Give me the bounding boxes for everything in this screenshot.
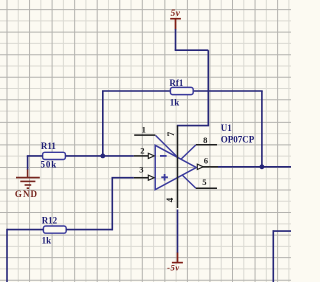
svg-text:2: 2 [140, 145, 144, 155]
wire: pin 4 down to -5V [177, 210, 179, 254]
pin 1 offset-null diagonal [156, 136, 178, 158]
svg-text:R12: R12 [42, 215, 58, 225]
svg-text:GND: GND [15, 189, 38, 199]
pin 5 [196, 187, 217, 189]
svg-text:-5v: -5v [167, 263, 180, 273]
svg-text:U1: U1 [221, 123, 232, 133]
pin number 1 [142, 125, 146, 135]
label GND [15, 189, 38, 199]
label R11 [41, 141, 57, 151]
power -5V symbol [172, 253, 183, 263]
pin 2 (inverting input) [134, 153, 154, 158]
svg-text:5v: 5v [171, 8, 181, 18]
svg-text:7: 7 [167, 132, 177, 137]
label R12 [42, 215, 58, 225]
power +5V symbol [170, 19, 181, 30]
resistor R11 [43, 152, 66, 159]
value 1k (R12) [42, 235, 52, 245]
junction: inverting input node [100, 154, 105, 159]
svg-text:1k: 1k [42, 235, 52, 245]
pin number 7 (rotated) [167, 132, 177, 137]
op-amp non-inverting input plus sign [161, 174, 168, 181]
resistor Rf1 [170, 87, 193, 94]
part number OP07CP [221, 134, 255, 144]
pin number 5 [202, 177, 206, 187]
resistor R12 [43, 226, 66, 233]
ground symbol [16, 170, 40, 189]
pin 1 [134, 134, 155, 136]
svg-text:4: 4 [166, 197, 176, 202]
label Rf1 [169, 78, 183, 88]
svg-text:1k: 1k [170, 97, 180, 107]
pin 5 diagonal [182, 175, 196, 188]
pin number 2 [140, 145, 144, 155]
wire: feedback right vertical down to output net [261, 91, 263, 167]
svg-text:50k: 50k [41, 159, 58, 169]
svg-text:6: 6 [204, 156, 209, 166]
pin 6 (output) [197, 164, 218, 169]
value 1k (Rf1) [170, 97, 180, 107]
pin number 6 [204, 156, 209, 166]
junction: output/feedback node [260, 164, 265, 169]
svg-text:5: 5 [202, 177, 206, 187]
svg-text:Rf1: Rf1 [169, 78, 183, 88]
wire: R12 right up to non-inverting input [66, 178, 134, 231]
svg-text:1: 1 [142, 125, 146, 135]
svg-text:3: 3 [139, 165, 143, 175]
label -5v [167, 263, 180, 273]
designator U1 [221, 123, 232, 133]
wire: feedback net horizontal (inverting input to Rf1 to output) [102, 90, 263, 92]
value 50k (R11) [41, 159, 58, 169]
svg-text:OP07CP: OP07CP [221, 134, 255, 144]
pin 8 [196, 144, 217, 146]
wire: R12 left to bottom edge [7, 229, 43, 282]
wire: 5V feed to pin 7 [175, 29, 209, 126]
svg-text:R11: R11 [41, 141, 57, 151]
svg-text:8: 8 [203, 135, 208, 145]
wire: feedback tap vertical down to inverting input node [102, 91, 104, 156]
wire: bottom-right corner net [273, 230, 292, 282]
op-amp U1 triangle [155, 145, 196, 189]
label 5v [171, 8, 181, 18]
pin 8 diagonal [181, 145, 196, 160]
op-amp inverting input minus sign [160, 155, 167, 157]
pin 3 (non-inverting input) [134, 175, 154, 180]
pin 7 (V+) vertical with pin 4 (V-) [177, 126, 179, 208]
wire: R11 right to inverting input [65, 155, 133, 157]
pin number 3 [139, 165, 143, 175]
pin number 4 (rotated) [166, 197, 176, 202]
pin number 8 [203, 135, 208, 145]
wire: R11 left to ground [27, 156, 43, 170]
wire: output to right edge [218, 166, 291, 168]
